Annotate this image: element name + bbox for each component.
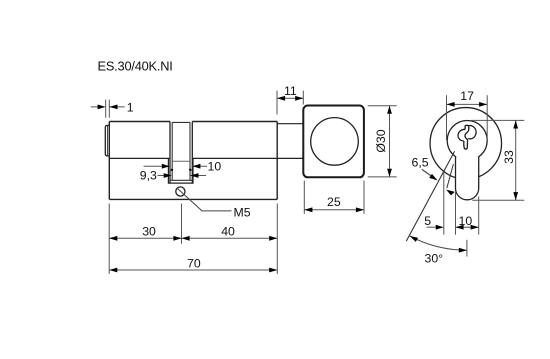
front view outer circle (knob) xyxy=(430,108,502,180)
cam slot inner top edge xyxy=(172,121,190,123)
dimension d30 line xyxy=(389,106,391,177)
front view inner circle (barrel) xyxy=(447,121,487,161)
svg-text:70: 70 xyxy=(187,256,201,270)
dimension 70 line xyxy=(109,269,277,271)
dimension 1 arrows xyxy=(91,106,125,108)
keyway right lobe xyxy=(468,126,476,139)
body waist line xyxy=(109,157,303,159)
svg-text:10: 10 xyxy=(459,214,473,228)
dimension 11 line xyxy=(277,97,303,99)
cam slot outer walls xyxy=(170,122,192,184)
dimension 33 extension lines xyxy=(471,120,524,200)
dimension 11 extension lines xyxy=(277,91,303,115)
front view foot/stem xyxy=(456,157,479,200)
knob outline xyxy=(303,106,364,178)
svg-text:25: 25 xyxy=(327,195,341,209)
svg-text:6,5: 6,5 xyxy=(412,155,429,169)
dimension 33 line xyxy=(515,120,517,200)
svg-text:Ø30: Ø30 xyxy=(374,129,388,152)
6,5 leader arrow xyxy=(422,169,432,176)
svg-text:30: 30 xyxy=(142,225,156,239)
svg-text:5: 5 xyxy=(424,214,431,228)
M5 leader line xyxy=(177,188,231,211)
second flank arrow xyxy=(447,164,454,188)
dimension 10 (slot) arrows xyxy=(144,165,208,167)
keyway entry and ward S-line xyxy=(465,125,469,141)
30 deg angle arc xyxy=(410,236,467,250)
dimension 1 ticks xyxy=(106,100,110,118)
slot trough outer U xyxy=(168,159,193,184)
dimension 30/40 extension lines xyxy=(109,204,277,274)
cam slot inner walls xyxy=(172,122,190,180)
dimension 17 line xyxy=(447,103,488,105)
svg-text:1: 1 xyxy=(127,100,134,114)
dimension d30 extension lines xyxy=(368,106,397,177)
svg-text:M5: M5 xyxy=(234,206,251,220)
cap chamfer line xyxy=(107,126,109,156)
svg-text:9,3: 9,3 xyxy=(140,168,157,182)
M5 screw hole xyxy=(176,187,185,196)
slot chamfer notch left xyxy=(171,169,174,171)
slot chamfer notch right xyxy=(189,169,192,171)
keyway left lobe xyxy=(458,129,465,141)
cam top edge seen in slot xyxy=(172,160,190,162)
svg-text:ES.30/40K.NI: ES.30/40K.NI xyxy=(98,58,173,73)
cylinder body outline xyxy=(109,122,277,200)
dimension 5 line and arrow xyxy=(427,226,436,228)
knob face circle xyxy=(311,118,359,166)
dimension 5/10 extension lines xyxy=(444,172,479,235)
slot trough inner bottom xyxy=(170,179,192,181)
dimension 17 extension lines xyxy=(447,95,488,140)
front end cap (1mm rim) xyxy=(105,125,109,155)
dimension 25 line xyxy=(304,209,364,211)
svg-text:30°: 30° xyxy=(425,251,444,265)
svg-text:10: 10 xyxy=(208,160,222,174)
svg-text:11: 11 xyxy=(284,84,297,98)
svg-text:40: 40 xyxy=(221,225,235,239)
dimension 25 extension lines xyxy=(304,181,364,214)
dimension 10 line and arrows xyxy=(456,226,479,228)
svg-text:33: 33 xyxy=(502,150,516,164)
svg-text:17: 17 xyxy=(460,89,474,103)
rotated-cam flank line (30 deg) xyxy=(406,151,454,241)
neck top line xyxy=(277,123,303,125)
30 deg vertical tick xyxy=(466,240,468,257)
dimension 30/40 line xyxy=(109,237,277,239)
keyway tail xyxy=(464,141,468,149)
dimension 9,3 arrows xyxy=(158,175,207,177)
